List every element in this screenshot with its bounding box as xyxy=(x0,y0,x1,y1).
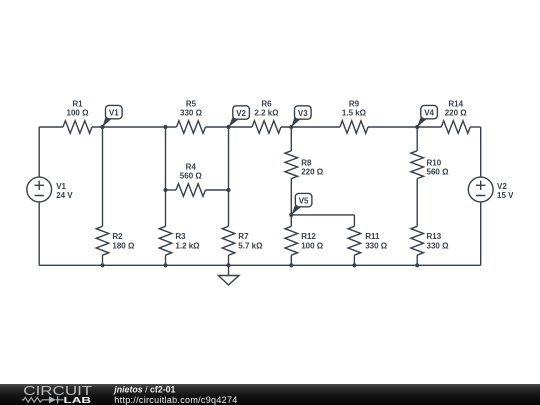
wire column R7 lower xyxy=(228,190,230,226)
resistor R13 xyxy=(411,226,449,255)
svg-text:jnietos / cf2-01: jnietos / cf2-01 xyxy=(113,385,175,395)
node V5 xyxy=(291,193,312,215)
junction R12 bottom xyxy=(289,263,293,267)
svg-text:330 Ω: 330 Ω xyxy=(180,108,203,117)
resistor R9 xyxy=(340,99,368,133)
svg-text:R7: R7 xyxy=(238,232,249,241)
junction R3 bottom xyxy=(163,263,167,267)
resistor R2 xyxy=(96,226,135,255)
svg-text:V5: V5 xyxy=(299,197,309,206)
wire right rail bottom xyxy=(480,202,482,265)
junction R3 top xyxy=(163,125,167,129)
resistor R14 xyxy=(441,99,470,133)
svg-text:5.7 kΩ: 5.7 kΩ xyxy=(238,241,263,250)
wire R4 right lead xyxy=(206,189,229,191)
resistor R1 xyxy=(63,99,92,133)
svg-text:LAB: LAB xyxy=(64,395,92,405)
svg-text:560 Ω: 560 Ω xyxy=(427,168,450,177)
svg-text:R3: R3 xyxy=(175,232,186,241)
svg-text:24 V: 24 V xyxy=(56,191,73,200)
svg-text:180 Ω: 180 Ω xyxy=(112,241,135,250)
node V4 xyxy=(417,105,437,127)
svg-text:560 Ω: 560 Ω xyxy=(180,172,203,181)
wire left rail top xyxy=(38,127,40,177)
resistor R6 xyxy=(252,99,281,133)
resistor R12 xyxy=(285,226,324,255)
ground xyxy=(218,265,239,285)
svg-text:330 Ω: 330 Ω xyxy=(427,241,450,250)
wire R11 top lead xyxy=(353,215,355,226)
node V1 xyxy=(103,105,123,127)
wire node V4 segment xyxy=(368,126,441,128)
wire column R3 upper xyxy=(165,127,167,190)
wire column R7 upper xyxy=(228,127,230,190)
wire R13 to bottom rail xyxy=(416,255,418,265)
wire V4 node down xyxy=(416,127,418,151)
junction R4 right xyxy=(226,188,230,192)
wire top rail right corner xyxy=(470,126,481,128)
junction ground xyxy=(226,263,230,267)
resistor R5 xyxy=(177,99,206,133)
wire node V2 segment xyxy=(206,126,253,128)
svg-text:R8: R8 xyxy=(301,158,312,167)
footer bar xyxy=(0,384,540,405)
node V2 xyxy=(229,106,250,127)
wire R3 to bottom rail xyxy=(165,255,167,265)
svg-text:220 Ω: 220 Ω xyxy=(445,108,468,117)
junction R2 bottom xyxy=(100,263,104,267)
wire R10 to R13 xyxy=(416,179,418,227)
wire V5 to R11 xyxy=(291,214,354,216)
wire node V1 segment xyxy=(92,126,177,128)
resistor R10 xyxy=(411,151,449,179)
svg-text:R13: R13 xyxy=(427,232,442,241)
wire bottom rail xyxy=(39,264,481,266)
wire R7 to bottom rail xyxy=(228,255,230,265)
resistor R4 xyxy=(176,163,206,197)
junction R11 bottom xyxy=(352,263,356,267)
wire column V1 node down xyxy=(102,127,104,226)
svg-text:R6: R6 xyxy=(261,99,272,108)
svg-text:15 V: 15 V xyxy=(497,191,514,200)
svg-text:1.5 kΩ: 1.5 kΩ xyxy=(342,108,367,117)
junction V4 node xyxy=(415,125,419,129)
svg-text:V4: V4 xyxy=(424,109,434,118)
wire top rail segment A xyxy=(39,126,63,128)
resistor R8 xyxy=(285,151,324,179)
wire V3 node down xyxy=(290,127,292,151)
wire R2 to bottom rail xyxy=(102,255,104,265)
svg-text:R10: R10 xyxy=(427,158,442,167)
junction R13 bottom xyxy=(415,263,419,267)
svg-text:R9: R9 xyxy=(349,99,360,108)
junction V5 node xyxy=(289,213,293,217)
svg-text:http://circuitlab.com/c9q4274: http://circuitlab.com/c9q4274 xyxy=(114,395,237,405)
svg-text:1.2 kΩ: 1.2 kΩ xyxy=(175,241,200,250)
svg-text:V2: V2 xyxy=(497,182,507,191)
voltage source V1 xyxy=(27,177,74,202)
junction V1 node top xyxy=(100,125,104,129)
junction R4 left xyxy=(163,188,167,192)
node V3 xyxy=(291,106,311,127)
svg-text:V2: V2 xyxy=(236,109,246,118)
svg-text:R5: R5 xyxy=(186,99,197,108)
wire R11 to bottom rail xyxy=(353,255,355,265)
svg-text:R14: R14 xyxy=(448,99,463,108)
svg-text:220 Ω: 220 Ω xyxy=(301,168,324,177)
svg-text:V3: V3 xyxy=(298,109,308,118)
svg-text:100 Ω: 100 Ω xyxy=(67,108,90,117)
svg-text:R1: R1 xyxy=(72,99,83,108)
voltage source V2 xyxy=(468,177,514,202)
resistor R11 xyxy=(348,226,388,255)
svg-text:R4: R4 xyxy=(186,163,197,172)
svg-text:100 Ω: 100 Ω xyxy=(301,241,324,250)
wire right rail top xyxy=(480,127,482,177)
wire node V3 segment xyxy=(281,126,340,128)
svg-text:R12: R12 xyxy=(301,232,316,241)
wire left rail bottom xyxy=(38,202,40,265)
wire R4 left lead xyxy=(166,189,177,191)
svg-text:V1: V1 xyxy=(109,109,119,118)
junction V3 node xyxy=(289,125,293,129)
resistor R3 xyxy=(159,226,200,255)
junction V2 node xyxy=(226,125,230,129)
svg-text:330 Ω: 330 Ω xyxy=(365,241,388,250)
svg-text:2.2 kΩ: 2.2 kΩ xyxy=(254,108,279,117)
wire column R3 lower xyxy=(165,190,167,226)
svg-text:V1: V1 xyxy=(56,182,66,191)
svg-text:R11: R11 xyxy=(365,232,380,241)
resistor R7 xyxy=(222,226,263,255)
CircuitLab logo resistor-diode glyph xyxy=(22,396,64,403)
wire V5 node down xyxy=(290,215,292,226)
wire R8 to V5 node xyxy=(290,179,292,215)
wire R12 to bottom rail xyxy=(290,255,292,265)
svg-text:R2: R2 xyxy=(112,232,123,241)
